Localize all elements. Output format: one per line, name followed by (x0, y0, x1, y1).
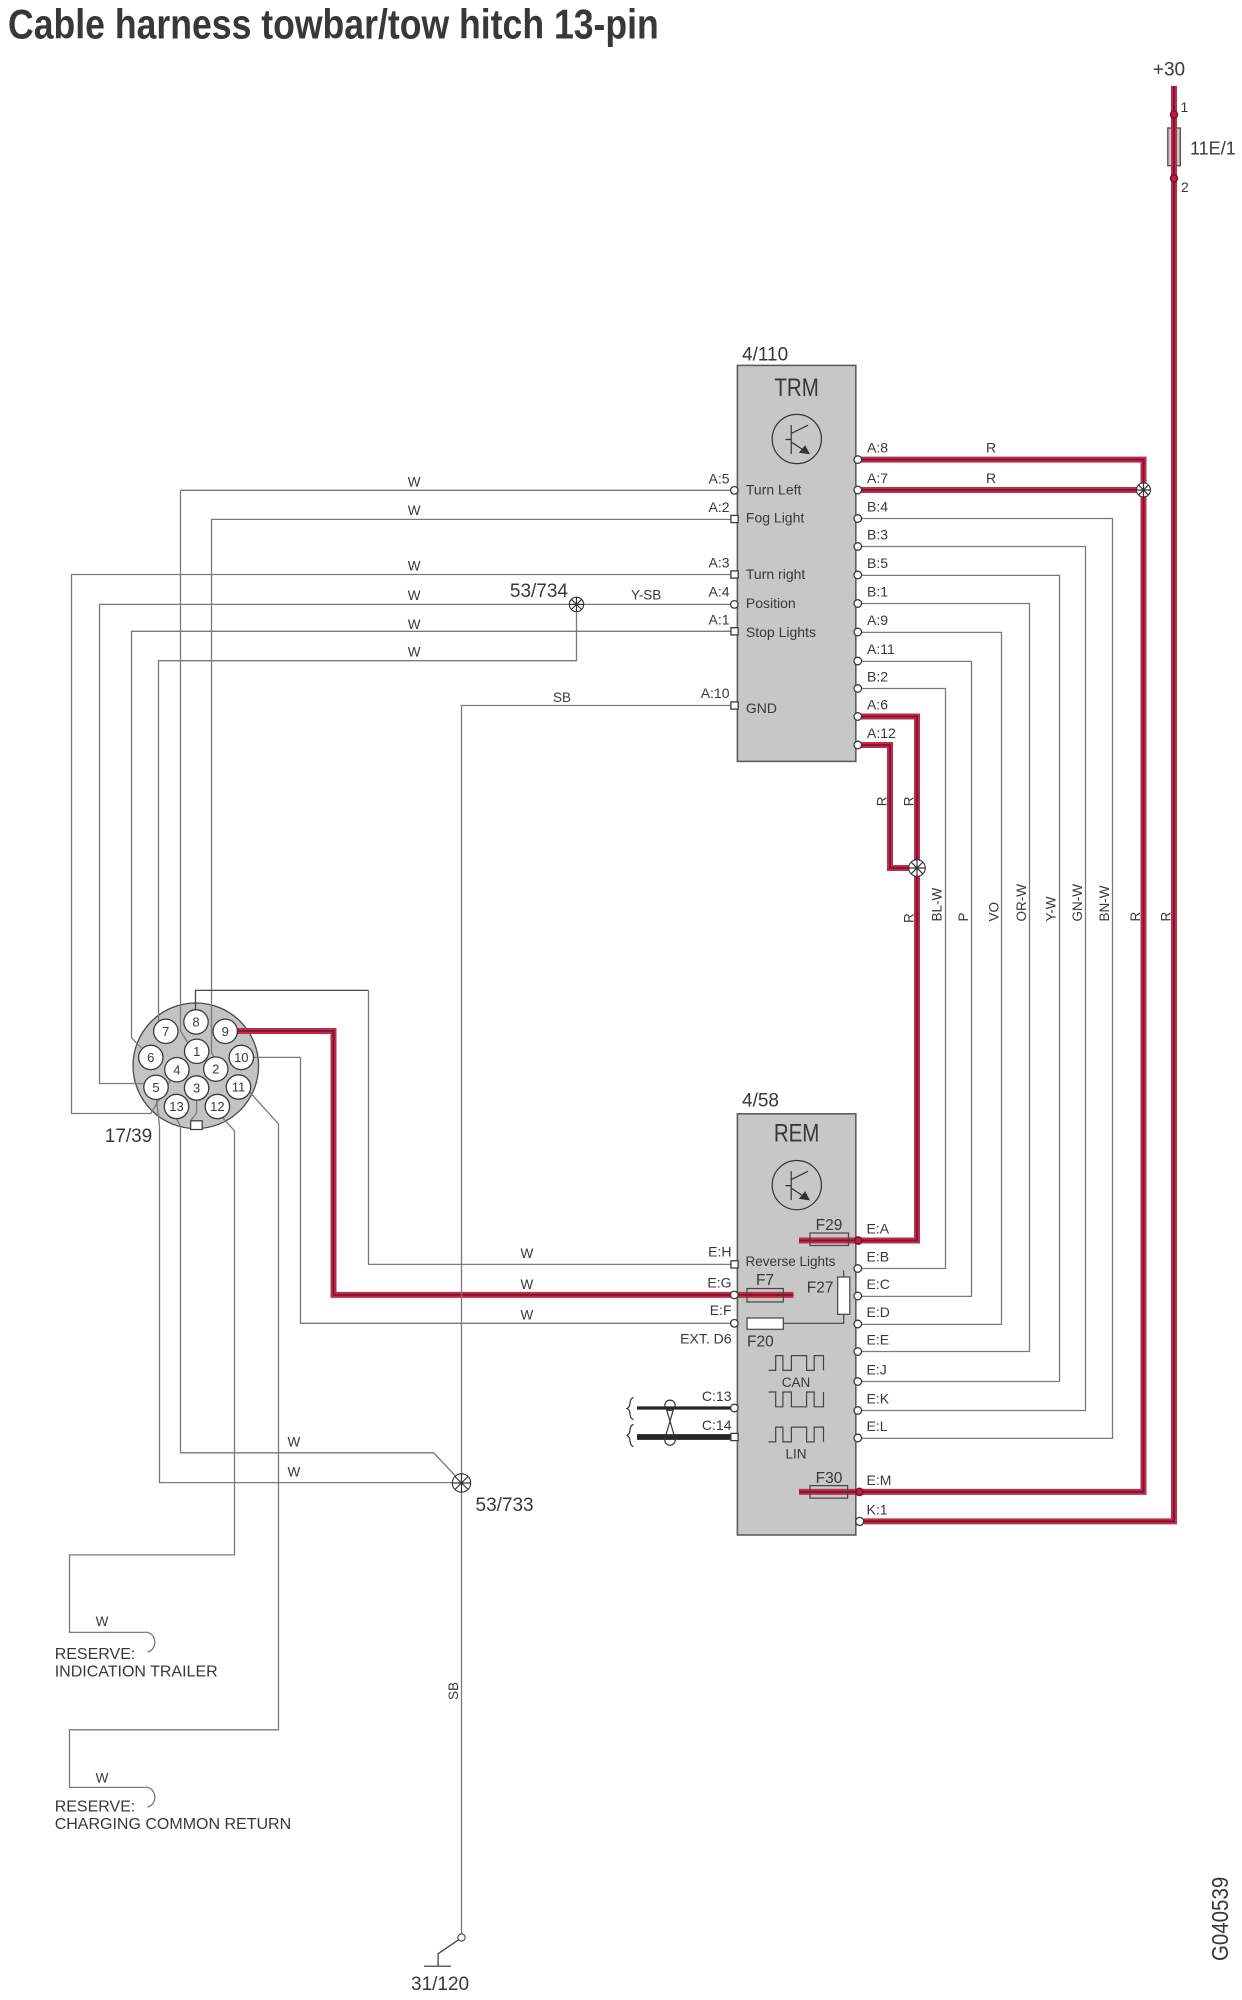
pin A:6 TRM (854, 713, 862, 721)
pin E:M REM (856, 1488, 863, 1495)
pin B:5 TRM (854, 571, 862, 579)
svg-text:A:6: A:6 (867, 697, 888, 713)
connector pin 12 (205, 1094, 229, 1118)
svg-text:W: W (408, 503, 421, 518)
CAN square wave lower (769, 1392, 824, 1407)
svg-text:11E/1: 11E/1 (1190, 138, 1236, 158)
pin E:F REM (731, 1320, 739, 1328)
svg-text:W: W (408, 617, 421, 632)
svg-text:A:7: A:7 (867, 470, 888, 486)
cable break squiggle C:14 (627, 1425, 634, 1447)
svg-text:8: 8 (192, 1015, 199, 1030)
svg-text:CAN: CAN (782, 1375, 811, 1390)
wire connector pin 5 to splice 53/733 (W) (157, 1099, 462, 1482)
svg-text:LIN: LIN (785, 1447, 806, 1462)
svg-text:4: 4 (173, 1062, 180, 1077)
pin A:4 TRM (731, 601, 739, 609)
pin 2 of fuse 11E/1 (1170, 175, 1177, 182)
splice junction 53/733 (452, 1474, 470, 1492)
pin E:K REM (854, 1407, 862, 1415)
wire A:8 TRM to splice (R) (858, 460, 1144, 487)
pin A:10 TRM (731, 702, 738, 709)
svg-text:A:5: A:5 (708, 471, 729, 487)
svg-text:B:3: B:3 (867, 527, 888, 543)
pin B:3 TRM (854, 543, 862, 551)
connector pin 1 (185, 1039, 209, 1063)
pin 1 of fuse 11E/1 (1170, 111, 1177, 118)
svg-text:R: R (1159, 912, 1174, 922)
wire A:6 TRM to splice (R) (858, 717, 917, 865)
svg-text:W: W (408, 588, 421, 603)
svg-text:E:C: E:C (867, 1276, 890, 1292)
svg-text:INDICATION TRAILER: INDICATION TRAILER (55, 1663, 218, 1680)
wire A:1 TRM to connector pin 6 (W) (132, 631, 735, 1048)
pin K:1 REM (856, 1517, 864, 1525)
svg-text:Stop Lights: Stop Lights (746, 624, 816, 640)
svg-text:E:K: E:K (867, 1391, 890, 1407)
pin E:C REM (854, 1292, 862, 1300)
svg-text:6: 6 (147, 1050, 154, 1065)
svg-text:A:1: A:1 (708, 612, 729, 628)
svg-text:4/110: 4/110 (742, 345, 788, 366)
pin B:1 TRM (854, 600, 862, 608)
svg-text:REM: REM (774, 1119, 820, 1147)
svg-text:E:G: E:G (707, 1274, 731, 1290)
splice junction 53/734 (569, 597, 583, 611)
svg-text:31/120: 31/120 (411, 1974, 469, 1995)
pin E:A REM (855, 1237, 862, 1244)
svg-text:F7: F7 (756, 1272, 774, 1289)
wire A:5 TRM to connector pin 1 (W) (181, 490, 735, 1044)
svg-text:RESERVE:: RESERVE: (55, 1799, 136, 1816)
svg-text:7: 7 (162, 1024, 169, 1039)
svg-text:GND: GND (746, 700, 777, 716)
svg-text:1: 1 (1181, 99, 1189, 115)
connector pin 2 (204, 1057, 228, 1081)
svg-text:RESERVE:: RESERVE: (55, 1646, 136, 1663)
fuse F27 (vertical) (838, 1277, 850, 1314)
svg-text:B:5: B:5 (867, 555, 888, 571)
pin E:G REM (731, 1291, 739, 1299)
svg-text:2: 2 (212, 1062, 219, 1077)
svg-text:A:3: A:3 (708, 555, 729, 571)
fuse F30 (810, 1486, 848, 1499)
pin A:3 TRM (731, 571, 738, 578)
fuse F20 (747, 1318, 783, 1329)
svg-text:BL-W: BL-W (930, 887, 945, 921)
pin E:B REM (854, 1265, 862, 1273)
pin A:2 TRM (731, 515, 738, 522)
svg-text:E:E: E:E (867, 1332, 890, 1348)
pin E:J REM (854, 1378, 862, 1386)
wire A:11 TRM to E:C REM (P) (858, 661, 972, 1296)
svg-text:53/733: 53/733 (476, 1495, 534, 1516)
connector pin 6 (139, 1045, 163, 1069)
wire connector pin 10 to E:F REM (W) (254, 1057, 735, 1323)
svg-text:P: P (956, 912, 971, 921)
svg-text:EXT. D6: EXT. D6 (680, 1330, 732, 1346)
hook reserve indication trailer (144, 1632, 155, 1652)
pin A:5 TRM (731, 487, 739, 495)
connector pin 7 (154, 1019, 178, 1043)
svg-text:W: W (288, 1435, 301, 1450)
svg-text:F20: F20 (747, 1334, 774, 1351)
svg-text:E:H: E:H (708, 1243, 731, 1259)
svg-text:W: W (521, 1307, 534, 1322)
svg-text:C:13: C:13 (702, 1388, 732, 1404)
svg-text:B:4: B:4 (867, 499, 888, 515)
svg-text:Fog Light: Fog Light (746, 509, 804, 525)
pin A:9 TRM (854, 628, 862, 636)
wire splice down to E:A REM through F29 (R) (799, 872, 917, 1241)
svg-text:A:12: A:12 (867, 725, 896, 741)
svg-text:Reverse Lights: Reverse Lights (746, 1254, 836, 1269)
ECU box REM 4/58 (737, 1114, 855, 1535)
wire connector pin 13 to splice 53/733 (W) (177, 1119, 457, 1477)
svg-text:17/39: 17/39 (105, 1126, 153, 1147)
svg-text:E:L: E:L (867, 1418, 888, 1434)
pin A:12 TRM (854, 741, 862, 749)
pin E:H REM (731, 1261, 738, 1268)
svg-text:W: W (521, 1246, 534, 1261)
connector pin 4 (165, 1058, 189, 1082)
wire B:5 TRM to E:J REM (Y-W) (858, 575, 1060, 1381)
svg-text:R: R (1128, 912, 1143, 922)
svg-text:+30: +30 (1153, 59, 1185, 80)
svg-text:E:A: E:A (867, 1221, 890, 1237)
transistor symbol TRM (772, 414, 821, 463)
svg-text:OR-W: OR-W (1014, 884, 1029, 922)
svg-text:GN-W: GN-W (1070, 884, 1085, 922)
svg-text:B:2: B:2 (867, 669, 888, 685)
svg-text:Y-W: Y-W (1044, 896, 1059, 921)
svg-text:K:1: K:1 (867, 1502, 888, 1518)
fuse F7 (747, 1289, 783, 1303)
splice junction A:8/A:7 (1137, 483, 1151, 497)
wire A:12 TRM to splice (R) (858, 745, 913, 868)
cable break squiggle C:13 (627, 1398, 634, 1420)
CAN square wave upper (769, 1356, 824, 1371)
svg-text:13: 13 (169, 1099, 183, 1114)
svg-text:E:F: E:F (710, 1302, 732, 1318)
svg-text:W: W (408, 475, 421, 490)
wire A:3 TRM to connector pin 4 (W) (72, 575, 735, 1114)
svg-text:3: 3 (193, 1081, 200, 1096)
svg-text:2: 2 (1181, 179, 1189, 195)
connector pin 13 (164, 1094, 188, 1118)
wire C:14 LIN black (637, 1434, 731, 1440)
wire C:13 CAN black (637, 1406, 731, 1409)
connector pin 5 (144, 1075, 168, 1099)
connector pin 9 (213, 1019, 237, 1043)
wire B:2 TRM to E:B REM (BL-W) (858, 689, 946, 1269)
ground symbol 31/120 (424, 1934, 465, 1966)
splice junction A:6/A:12 (909, 860, 926, 877)
LIN square wave (769, 1427, 824, 1442)
svg-text:9: 9 (222, 1024, 229, 1039)
svg-text:SB: SB (446, 1682, 461, 1700)
svg-text:Turn Left: Turn Left (746, 482, 802, 498)
wire B:3 TRM to E:K REM (GN-W) (858, 547, 1086, 1411)
wire connector pin 11 to reserve charging common return (W) (70, 1091, 279, 1787)
svg-text:A:10: A:10 (701, 685, 730, 701)
svg-text:R: R (986, 440, 996, 456)
pin E:D REM (854, 1320, 862, 1328)
svg-text:A:9: A:9 (867, 612, 888, 628)
svg-text:1: 1 (193, 1044, 200, 1059)
svg-text:VO: VO (987, 902, 1002, 922)
svg-text:E:B: E:B (867, 1249, 890, 1265)
connector keyway notch (191, 1121, 203, 1130)
svg-text:R: R (875, 796, 890, 806)
svg-text:4/58: 4/58 (742, 1091, 779, 1112)
transistor symbol REM (772, 1161, 821, 1210)
wire A:9 TRM to E:D REM (VO) (858, 632, 1002, 1324)
connector pin 10 (229, 1045, 253, 1069)
wire splice down to E:M REM through F30 (R) (799, 493, 1144, 1492)
svg-text:E:M: E:M (867, 1472, 892, 1488)
svg-text:F30: F30 (816, 1470, 843, 1487)
wire A:4 TRM to connector pin 5 (W) through splice 53/734 (100, 604, 735, 1083)
pin B:2 TRM (854, 685, 862, 693)
fuse 11E/1 (1168, 128, 1181, 166)
pin E:L REM (854, 1434, 862, 1442)
fuse F29 (810, 1233, 849, 1246)
svg-text:SB: SB (553, 690, 571, 705)
svg-text:E:D: E:D (867, 1304, 890, 1320)
svg-text:11: 11 (232, 1080, 246, 1095)
wire A:2 TRM to connector pin 2 (W) (212, 519, 735, 1057)
wire connector pin 9 to E:G REM through F7 (R) (237, 1031, 793, 1295)
svg-text:A:11: A:11 (867, 641, 895, 657)
svg-text:10: 10 (234, 1050, 248, 1065)
pin C:13 REM (731, 1404, 739, 1412)
wire connector pin 3 stub to keyway (191, 1100, 197, 1120)
wire B:1 TRM to E:E REM (OR-W) (858, 604, 1030, 1352)
wire A:10 TRM SB to ground 31/120 (drawn over red) (462, 706, 735, 1935)
svg-text:E:J: E:J (867, 1362, 887, 1378)
svg-text:5: 5 (152, 1080, 159, 1095)
wire B:4 TRM to E:L REM (BN-W) (858, 519, 1113, 1439)
connector 17/39 body (133, 1003, 259, 1129)
pin A:1 TRM (731, 628, 738, 635)
svg-text:B:1: B:1 (867, 584, 888, 600)
connector pin 8 (184, 1010, 208, 1034)
svg-text:W: W (96, 1770, 109, 1785)
svg-text:Position: Position (746, 595, 796, 611)
svg-text:R: R (902, 913, 917, 923)
connector pin 3 (184, 1076, 208, 1100)
svg-text:BN-W: BN-W (1097, 885, 1112, 921)
wire splice 53/734 branch to connector pin 7 (W) (159, 604, 577, 1020)
pin A:7 TRM (854, 486, 862, 494)
pin C:14 REM (731, 1433, 738, 1440)
ECU box TRM 4/110 (737, 365, 855, 761)
svg-text:W: W (96, 1614, 109, 1629)
svg-text:W: W (408, 558, 421, 573)
svg-text:R: R (986, 470, 996, 486)
pin A:8 TRM (854, 456, 862, 464)
svg-text:R: R (902, 796, 917, 806)
wire internal F20 to F27 REM (783, 1271, 843, 1324)
svg-text:Turn right: Turn right (746, 566, 806, 582)
twisted pair symbol C:13/C:14 (665, 1400, 675, 1445)
pin E:E REM (854, 1348, 862, 1356)
wire connector pin 12 to reserve indication trailer (W) (70, 1116, 235, 1632)
wire A:7 TRM to splice (R) (858, 487, 1140, 493)
pin B:4 TRM (854, 515, 862, 523)
svg-text:53/734: 53/734 (510, 581, 569, 602)
hook reserve charging common return (144, 1787, 155, 1807)
svg-text:12: 12 (210, 1099, 224, 1114)
connector pin 11 (226, 1075, 250, 1099)
svg-text:C:14: C:14 (702, 1417, 732, 1433)
svg-text:A:4: A:4 (708, 584, 729, 600)
svg-text:W: W (288, 1465, 301, 1480)
svg-text:CHARGING COMMON RETURN: CHARGING COMMON RETURN (55, 1816, 291, 1833)
svg-text:A:8: A:8 (867, 440, 888, 456)
wire +30 feed to K:1 REM (R) (864, 86, 1174, 1521)
svg-text:W: W (408, 645, 421, 660)
svg-text:A:2: A:2 (708, 499, 729, 515)
svg-text:F27: F27 (807, 1280, 834, 1297)
svg-text:W: W (521, 1277, 534, 1292)
svg-text:TRM: TRM (774, 373, 818, 401)
pin A:11 TRM (854, 657, 862, 665)
svg-text:G040539: G040539 (1207, 1877, 1233, 1961)
svg-text:Cable harness towbar/tow hitch: Cable harness towbar/tow hitch 13-pin (8, 2, 659, 48)
svg-text:F29: F29 (816, 1217, 843, 1234)
svg-text:Y-SB: Y-SB (631, 588, 661, 603)
wire connector pin 8 to E:H REM reverse lights (W) (196, 990, 369, 1009)
